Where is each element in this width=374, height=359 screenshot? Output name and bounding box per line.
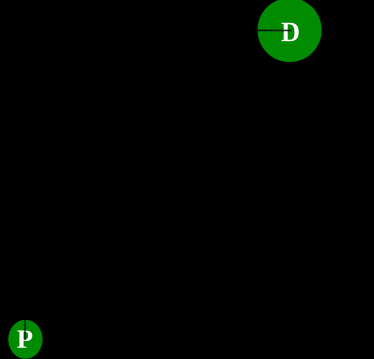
edge (wire) into node P, vertical, ends at node centre bbox=[24, 250, 26, 340]
node P ellipse (green filled) bbox=[8, 320, 42, 359]
node D label "D" (white serif bold glyph outline) bbox=[282, 23, 299, 41]
node P label "P" (white serif bold glyph outline) bbox=[17, 331, 32, 348]
node D circle (green filled) bbox=[258, 0, 322, 62]
edge (wire) into node D, horizontal, ends at node centre bbox=[150, 29, 292, 31]
